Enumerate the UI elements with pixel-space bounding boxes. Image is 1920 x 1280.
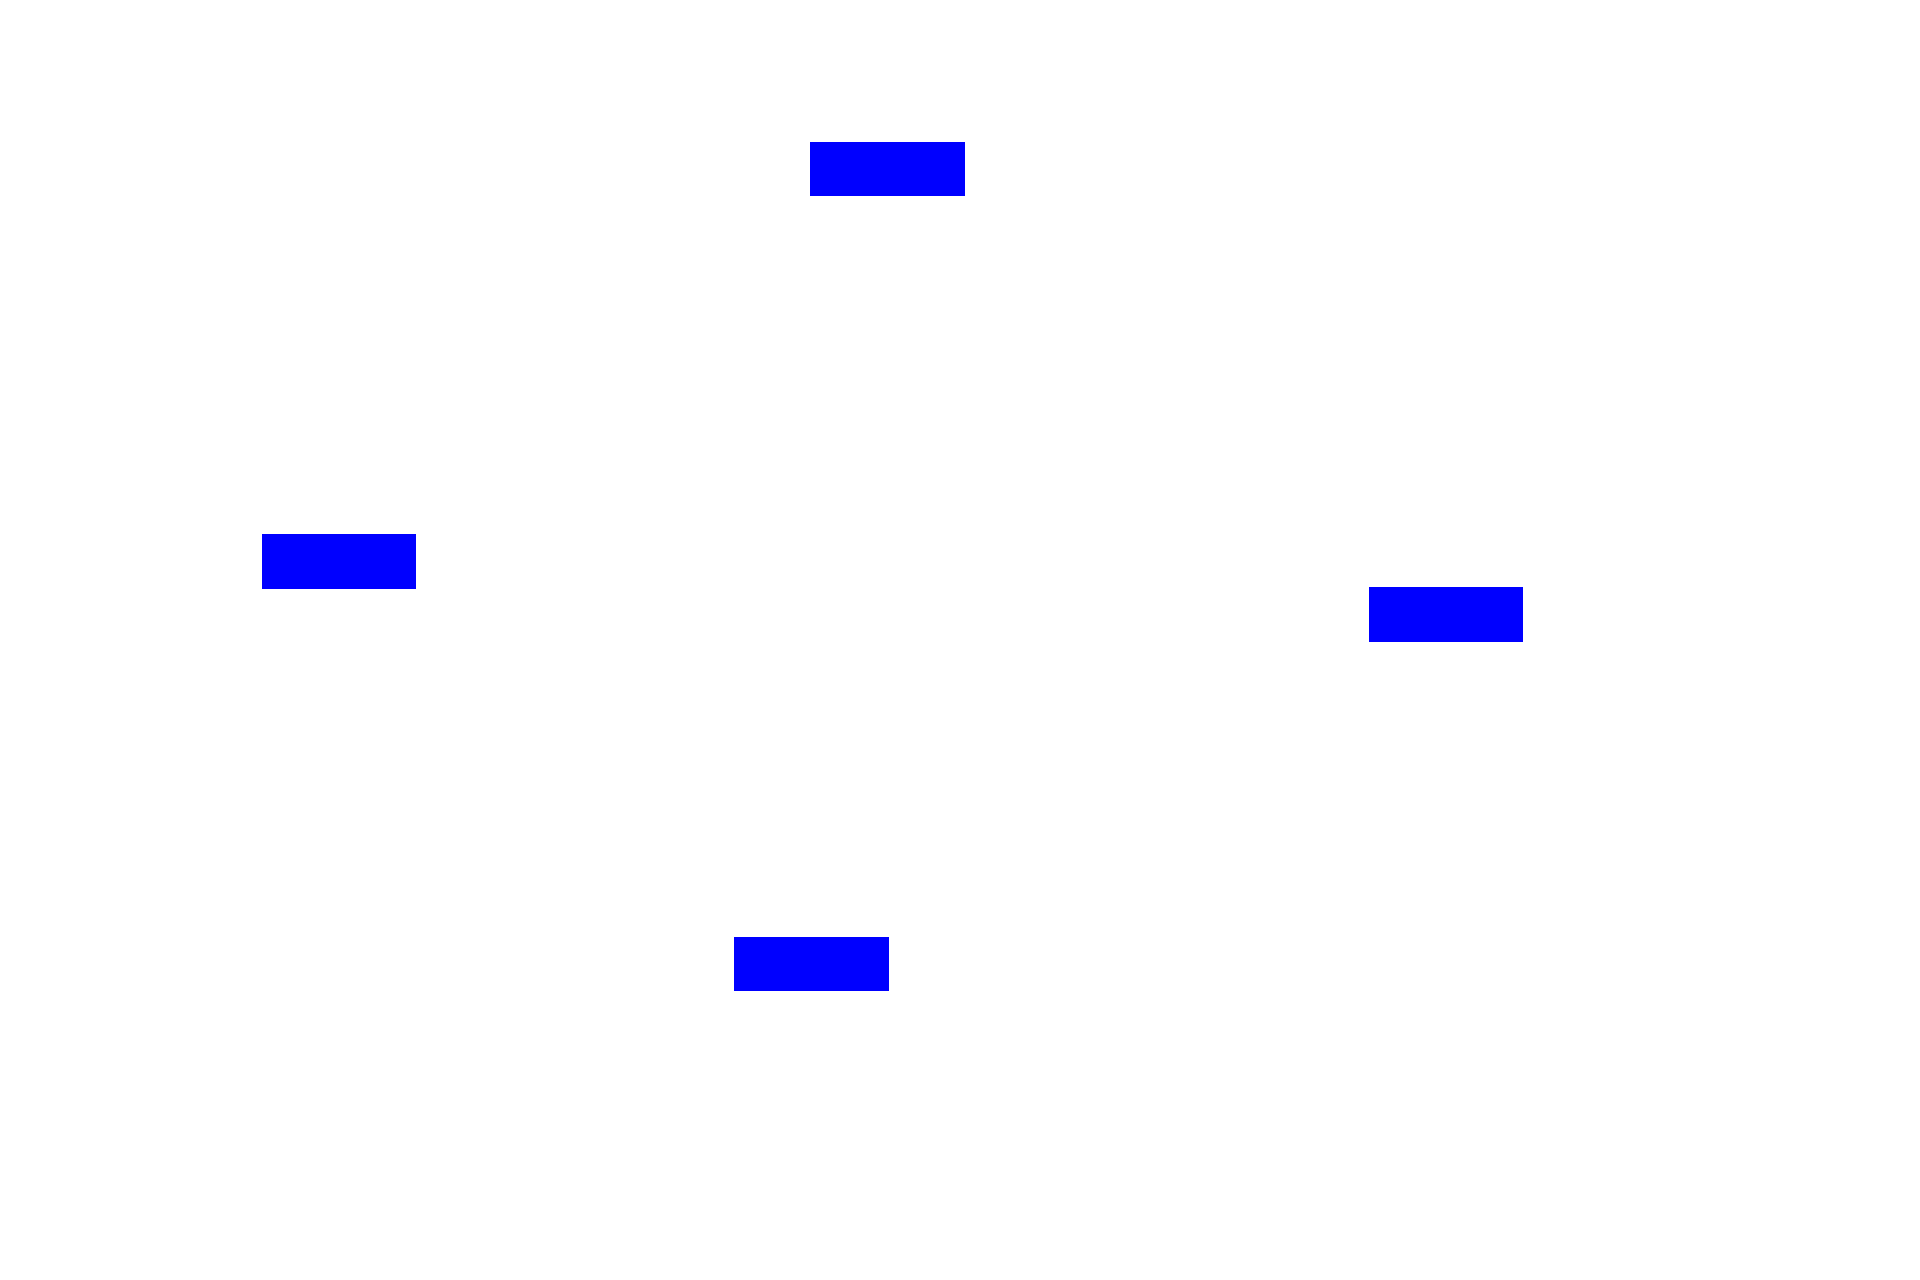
blue rectangle 2 (middle left) xyxy=(262,534,416,589)
blue rectangle 1 (top center) xyxy=(810,142,965,196)
blue rectangle 3 (middle right) xyxy=(1369,587,1523,642)
blue rectangle 4 (bottom center) xyxy=(734,937,889,991)
